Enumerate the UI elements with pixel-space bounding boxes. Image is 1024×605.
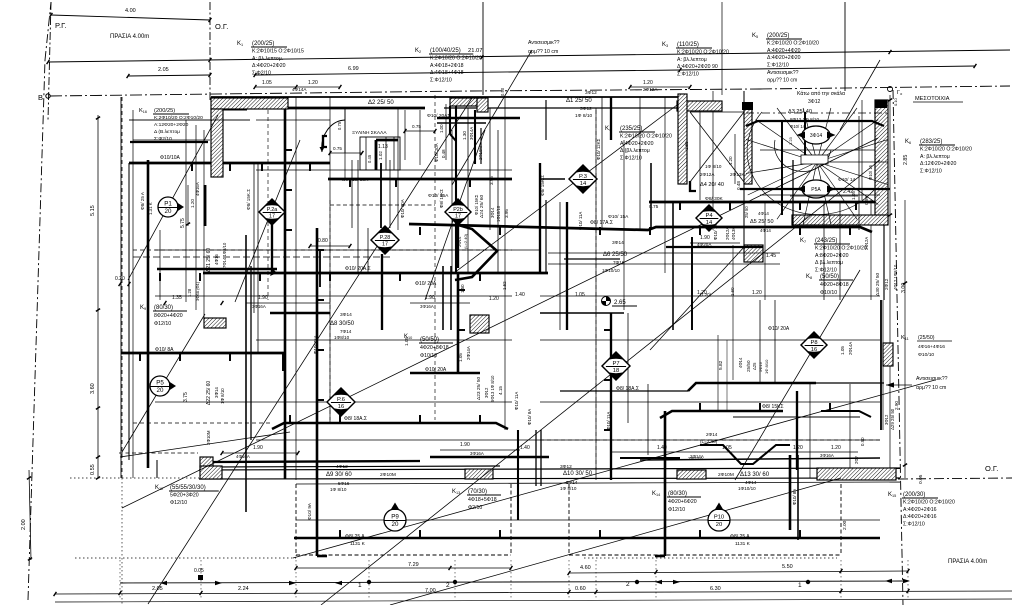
svg-text:Φ10/ 14: Φ10/ 14 xyxy=(838,177,855,183)
svg-text:Δ3 25/ 40: Δ3 25/ 40 xyxy=(788,109,812,115)
svg-text:1: 1 xyxy=(798,582,802,589)
svg-text:0.90: 0.90 xyxy=(860,437,865,446)
svg-text:(283/25): (283/25) xyxy=(920,139,942,145)
svg-text:5.75: 5.75 xyxy=(180,218,186,228)
svg-text:Φ8/ 17Α.Σ: Φ8/ 17Α.Σ xyxy=(590,220,613,226)
svg-text:Δ8 30/50: Δ8 30/50 xyxy=(330,321,355,327)
svg-text:Δ (Β.λεπτομ: Δ (Β.λεπτομ xyxy=(154,129,180,135)
svg-text:Σ:Φ12/10: Σ:Φ12/10 xyxy=(430,78,452,84)
svg-text:Α:8Φ20+2Φ20: Α:8Φ20+2Φ20 xyxy=(815,253,849,259)
svg-text:P8: P8 xyxy=(810,340,817,346)
svg-text:Δ:4Φ20+2Φ16: Δ:4Φ20+2Φ16 xyxy=(903,514,937,520)
svg-text:Φ10/ 75Α: Φ10/ 75Α xyxy=(313,335,318,354)
svg-text:3Φ6Α (Θ1): 3Φ6Α (Θ1) xyxy=(195,281,200,301)
svg-text:Δ (βλ.λεπτομ: Δ (βλ.λεπτομ xyxy=(620,148,650,154)
svg-text:Φ10/10: Φ10/10 xyxy=(820,290,837,296)
svg-text:4Φ18+5Φ18: 4Φ18+5Φ18 xyxy=(468,497,497,503)
svg-text:1.45: 1.45 xyxy=(766,253,776,259)
svg-text:(L=2.40): (L=2.40) xyxy=(463,233,468,249)
svg-text:Φ10/ 20Α: Φ10/ 20Α xyxy=(400,199,405,218)
svg-text:5Φ16: 5Φ16 xyxy=(338,481,350,486)
svg-text:2Φ12Α: 2Φ12Α xyxy=(700,172,715,177)
svg-text:P.6: P.6 xyxy=(337,397,345,403)
svg-text:(200/30): (200/30) xyxy=(903,492,925,498)
svg-text:3Φ14Α: 3Φ14Α xyxy=(469,127,474,140)
svg-text:Φ8/ 25 Α: Φ8/ 25 Α xyxy=(730,534,750,540)
svg-text:2Φ14Α: 2Φ14Α xyxy=(690,454,704,459)
svg-text:3Φ16Α: 3Φ16Α xyxy=(420,304,434,309)
svg-text:(1.20): (1.20) xyxy=(700,292,712,297)
svg-text:Φ12/10: Φ12/10 xyxy=(170,500,187,506)
svg-text:Φ10/ 15Α: Φ10/ 15Α xyxy=(608,214,629,220)
svg-text:0.99: 0.99 xyxy=(864,196,869,205)
svg-text:Φ8/ 25 Α: Φ8/ 25 Α xyxy=(345,534,365,540)
svg-text:Φ10/ 20Α: Φ10/ 20Α xyxy=(434,143,439,162)
svg-text:P10: P10 xyxy=(714,515,724,521)
svg-text:1.02: 1.02 xyxy=(378,151,383,160)
svg-text:1.05: 1.05 xyxy=(575,292,585,298)
svg-text:Σ:Φ2/10: Σ:Φ2/10 xyxy=(154,136,172,142)
svg-text:1.20: 1.20 xyxy=(831,445,841,451)
svg-text:1.00: 1.00 xyxy=(439,124,444,133)
svg-text:Δ29 25/ 50: Δ29 25/ 50 xyxy=(890,408,895,430)
svg-text:1.20: 1.20 xyxy=(643,80,653,86)
svg-text:Κάτω από την σκάλα: Κάτω από την σκάλα xyxy=(797,90,845,97)
svg-text:7Φ14: 7Φ14 xyxy=(340,329,352,334)
svg-text:2Φ12Α: 2Φ12Α xyxy=(725,227,730,240)
svg-text:1.05: 1.05 xyxy=(840,346,845,355)
svg-text:ΞΥΛΙΝΗ ΣΚΑΛΑ: ΞΥΛΙΝΗ ΣΚΑΛΑ xyxy=(352,130,387,136)
svg-text:0.10: 0.10 xyxy=(893,97,898,106)
svg-text:1.23: 1.23 xyxy=(788,136,793,145)
svg-text:1.05: 1.05 xyxy=(458,353,463,362)
svg-text:1.31 Κ: 1.31 Κ xyxy=(148,202,153,215)
svg-text:Α:4Φ20+2Φ16: Α:4Φ20+2Φ16 xyxy=(903,507,937,513)
svg-text:Α:4Φ20+4Φ20: Α:4Φ20+4Φ20 xyxy=(767,48,801,54)
svg-text:(100/40/25): (100/40/25) xyxy=(430,48,461,54)
svg-text:21.07: 21.07 xyxy=(468,48,483,54)
svg-text:25/50: 25/50 xyxy=(746,360,751,372)
svg-text:Φ10/ 8Α: Φ10/ 8Α xyxy=(792,489,797,505)
svg-text:2Φ?: 2Φ? xyxy=(854,455,859,464)
svg-text:3Φ14: 3Φ14 xyxy=(612,240,624,246)
svg-text:1.13: 1.13 xyxy=(378,144,388,150)
svg-text:1.40: 1.40 xyxy=(520,445,530,451)
svg-text:1Φ 8/10: 1Φ 8/10 xyxy=(764,359,769,374)
svg-text:4Φ14: 4Φ14 xyxy=(745,480,757,485)
svg-text:3.95: 3.95 xyxy=(489,176,494,185)
svg-text:1Φ 8/10: 1Φ 8/10 xyxy=(220,388,225,404)
svg-text:Α: βλ.λεπτομ: Α: βλ.λεπτομ xyxy=(677,57,707,63)
svg-text:3Φ16Α: 3Φ16Α xyxy=(470,451,484,456)
svg-text:0.48: 0.48 xyxy=(736,181,741,190)
svg-text:1131 Κ: 1131 Κ xyxy=(350,541,366,547)
svg-text:Δ4 20/ 40: Δ4 20/ 40 xyxy=(700,182,724,188)
svg-text:0.60: 0.60 xyxy=(575,586,586,592)
svg-text:0.75: 0.75 xyxy=(649,204,659,210)
svg-text:1.40: 1.40 xyxy=(657,445,667,451)
svg-text:Σ:Φ12/10: Σ:Φ12/10 xyxy=(815,268,837,274)
svg-text:Σ:Φ12/10: Σ:Φ12/10 xyxy=(677,72,699,78)
svg-text:2.00: 2.00 xyxy=(21,519,27,530)
svg-text:1131 Κ: 1131 Κ xyxy=(735,541,751,547)
svg-text:1Φ 8/10: 1Φ 8/10 xyxy=(330,487,347,492)
svg-text:ΜΕΣΟΤΟΙΧΙΑ: ΜΕΣΟΤΟΙΧΙΑ xyxy=(915,96,950,102)
svg-text:3.75: 3.75 xyxy=(183,392,189,402)
svg-text:(200/25): (200/25) xyxy=(767,33,789,39)
svg-text:5Φ20+3Φ20: 5Φ20+3Φ20 xyxy=(170,492,199,498)
svg-text:P2b: P2b xyxy=(453,207,463,213)
svg-text:1.40: 1.40 xyxy=(515,292,525,298)
svg-text:(110/25): (110/25) xyxy=(677,42,699,48)
svg-text:1.80: 1.80 xyxy=(684,141,689,150)
svg-text:3Φ14: 3Φ14 xyxy=(340,312,352,318)
svg-text:1.20: 1.20 xyxy=(752,290,762,296)
svg-text:Δ2 25/ 50: Δ2 25/ 50 xyxy=(368,100,394,106)
svg-text:Δ:4Φ20+2Φ20: Δ:4Φ20+2Φ20 xyxy=(767,55,801,61)
svg-text:Κ:2Φ10/20 Ο:2Φ10/20: Κ:2Φ10/20 Ο:2Φ10/20 xyxy=(903,499,955,505)
svg-text:5Φ13 1Φ 8/10: 5Φ13 1Φ 8/10 xyxy=(490,375,495,402)
svg-text:Φ8/ 25 Α: Φ8/ 25 Α xyxy=(140,191,145,210)
svg-text:P.2a: P.2a xyxy=(267,207,277,213)
svg-text:8Φ20+4Φ20: 8Φ20+4Φ20 xyxy=(154,313,183,319)
svg-text:Δ1 25/ 50: Δ1 25/ 50 xyxy=(566,98,592,104)
svg-text:2.00: 2.00 xyxy=(842,520,848,530)
svg-text:(25/50): (25/50) xyxy=(918,335,935,341)
svg-text:3Φ16Α: 3Φ16Α xyxy=(820,453,834,458)
svg-text:14: 14 xyxy=(706,220,713,226)
svg-text:Φ8/ 30Κ: Φ8/ 30Κ xyxy=(705,196,723,202)
svg-text:Φ10/ 11Α: Φ10/ 11Α xyxy=(514,392,519,410)
svg-text:0.80: 0.80 xyxy=(318,238,328,244)
svg-text:3Φ12: 3Φ12 xyxy=(884,414,889,425)
svg-text:16: 16 xyxy=(338,404,344,410)
svg-text:25/ 50: 25/ 50 xyxy=(744,206,749,218)
svg-text:Φ8/ 18ΚΣ: Φ8/ 18ΚΣ xyxy=(439,189,444,208)
svg-text:2Φ14Α: 2Φ14Α xyxy=(848,342,853,355)
svg-text:Δ5 25/ 50: Δ5 25/ 50 xyxy=(750,219,774,225)
svg-text:1.20: 1.20 xyxy=(489,296,499,302)
svg-text:2Φ12Α: 2Φ12Α xyxy=(643,87,658,92)
svg-text:1.28: 1.28 xyxy=(187,288,192,297)
svg-text:2.85: 2.85 xyxy=(903,155,909,165)
svg-text:Φ10/ 12: Φ10/ 12 xyxy=(713,224,718,240)
svg-text:Σ:Φ2/10: Σ:Φ2/10 xyxy=(252,71,271,77)
svg-text:3Φ14: 3Φ14 xyxy=(490,207,495,218)
svg-text:1Φ8/10: 1Φ8/10 xyxy=(334,335,350,340)
svg-text:4Φ12: 4Φ12 xyxy=(336,464,348,470)
svg-text:Α: βλ.λεπτομ.: Α: βλ.λεπτομ. xyxy=(252,56,283,62)
svg-text:4Φ20+8Φ18: 4Φ20+8Φ18 xyxy=(820,282,849,288)
svg-text:(200/25): (200/25) xyxy=(252,41,274,47)
svg-text:Ο.Γ.: Ο.Γ. xyxy=(985,464,998,473)
svg-text:0.75: 0.75 xyxy=(337,121,342,130)
svg-text:Φ10/ 20Α: Φ10/ 20Α xyxy=(425,367,447,373)
svg-text:Φ10/ 15: Φ10/ 15 xyxy=(868,164,873,180)
svg-text:Φ12/10: Φ12/10 xyxy=(154,321,171,327)
svg-text:Κ:2Φ10/20 Ο:2Φ10/20: Κ:2Φ10/20 Ο:2Φ10/20 xyxy=(154,115,203,121)
svg-text:P7: P7 xyxy=(612,361,619,367)
svg-text:6.99: 6.99 xyxy=(348,66,359,72)
svg-text:0.05: 0.05 xyxy=(194,568,204,574)
svg-text:(L=2.40): (L=2.40) xyxy=(700,439,718,444)
svg-text:P.3: P.3 xyxy=(579,174,587,180)
svg-text:Δ βλ.λεπτομ: Δ βλ.λεπτομ xyxy=(815,260,843,266)
svg-text:Δ23 25/ 50: Δ23 25/ 50 xyxy=(476,376,482,400)
svg-text:(55/55/30/30): (55/55/30/30) xyxy=(170,485,206,491)
svg-text:3Φ12: 3Φ12 xyxy=(808,99,821,105)
svg-text:Φ8/ 18Α.Σ: Φ8/ 18Α.Σ xyxy=(344,416,367,422)
svg-text:Δ:4Φ20+2Φ20: Δ:4Φ20+2Φ20 xyxy=(252,63,286,69)
svg-text:1Φ10/10: 1Φ10/10 xyxy=(602,268,620,273)
svg-text:1.20: 1.20 xyxy=(728,156,733,165)
svg-text:0.48: 0.48 xyxy=(441,149,446,158)
svg-text:1: 1 xyxy=(358,582,362,589)
svg-text:P.28: P.28 xyxy=(380,235,390,241)
svg-text:20: 20 xyxy=(716,522,722,528)
svg-text:4Φ12 1Φ8/10: 4Φ12 1Φ8/10 xyxy=(893,264,898,290)
svg-text:0.75: 0.75 xyxy=(333,146,342,151)
svg-text:2Φ10Μ: 2Φ10Μ xyxy=(380,472,396,478)
svg-text:20: 20 xyxy=(157,387,164,394)
svg-text:Φ10/ 11Α: Φ10/ 11Α xyxy=(606,412,611,430)
svg-text:8Φ12 1Φ 8/10: 8Φ12 1Φ 8/10 xyxy=(790,117,819,122)
svg-text:Α:4Φ20+2Φ20: Α:4Φ20+2Φ20 xyxy=(620,141,654,147)
svg-text:3Φ12: 3Φ12 xyxy=(580,106,592,112)
svg-text:(80/30): (80/30) xyxy=(154,305,173,311)
svg-text:4.00: 4.00 xyxy=(125,8,136,14)
svg-text:Φ8/ 15ΚΣ: Φ8/ 15ΚΣ xyxy=(762,404,784,410)
svg-text:5.15: 5.15 xyxy=(90,205,96,216)
svg-text:3.60: 3.60 xyxy=(90,383,96,394)
svg-text:Α:12Φ20+2Φ20: Α:12Φ20+2Φ20 xyxy=(154,122,189,128)
svg-text:Δ22 25/ 60: Δ22 25/ 60 xyxy=(206,381,212,405)
svg-text:1Φ10/10: 1Φ10/10 xyxy=(496,205,501,222)
svg-text:4Φ20+6Φ20: 4Φ20+6Φ20 xyxy=(668,499,697,505)
svg-text:Φ12/10: Φ12/10 xyxy=(668,507,685,513)
svg-text:Αντισεισμικ??: Αντισεισμικ?? xyxy=(528,40,560,46)
svg-text:4.60: 4.60 xyxy=(580,565,591,571)
svg-text:4Φ16Α: 4Φ16Α xyxy=(195,182,200,196)
svg-text:4Φ16: 4Φ16 xyxy=(214,254,219,265)
svg-text:0.55: 0.55 xyxy=(90,464,96,475)
svg-text:Φ8/ 15Κ.Σ: Φ8/ 15Κ.Σ xyxy=(246,189,251,210)
svg-text:Κ:2Φ10/20 Ο:2Φ10/20: Κ:2Φ10/20 Ο:2Φ10/20 xyxy=(620,133,672,139)
svg-text:4Φ14: 4Φ14 xyxy=(760,228,771,233)
svg-text:4Φ14Α: 4Φ14Α xyxy=(292,87,307,92)
svg-text:(200/25): (200/25) xyxy=(154,108,175,114)
svg-text:4Φ16Α: 4Φ16Α xyxy=(236,454,250,459)
svg-text:ΠΡΑΣΙΑ 4.00m: ΠΡΑΣΙΑ 4.00m xyxy=(948,559,987,565)
svg-text:Φ10/10: Φ10/10 xyxy=(420,353,437,359)
svg-text:Ρ.Γ.: Ρ.Γ. xyxy=(55,21,67,30)
svg-text:Φ10/ 14: Φ10/ 14 xyxy=(790,124,806,129)
svg-text:Δ25: Δ25 xyxy=(752,362,757,370)
svg-text:2: 2 xyxy=(626,581,630,588)
svg-text:2.65: 2.65 xyxy=(614,300,626,306)
svg-text:1Φ10/10: 1Φ10/10 xyxy=(738,486,756,491)
svg-text:(50/50): (50/50) xyxy=(420,337,439,343)
svg-text:Φ10/ 20Α: Φ10/ 20Α xyxy=(768,326,790,332)
svg-text:P4: P4 xyxy=(705,213,713,219)
svg-text:1.05: 1.05 xyxy=(404,337,409,346)
svg-text:4Φ14: 4Φ14 xyxy=(758,211,769,216)
svg-text:1.50: 1.50 xyxy=(460,284,465,293)
svg-text:1.90: 1.90 xyxy=(253,445,263,451)
svg-text:Φ10/ 11Α: Φ10/ 11Α xyxy=(578,212,583,230)
svg-text:14: 14 xyxy=(580,181,587,187)
svg-text:2Φ14: 2Φ14 xyxy=(706,432,718,437)
svg-text:κλ.Φ10/ 20Κ: κλ.Φ10/ 20Κ xyxy=(342,177,369,183)
svg-text:3Φ16Α: 3Φ16Α xyxy=(252,304,266,309)
svg-text:2.05: 2.05 xyxy=(158,67,169,73)
svg-text:5.50: 5.50 xyxy=(782,564,793,570)
svg-text:4.15: 4.15 xyxy=(498,386,503,395)
svg-text:(80/30): (80/30) xyxy=(668,491,687,497)
svg-text:2.90: 2.90 xyxy=(894,401,899,410)
svg-text:18: 18 xyxy=(613,368,619,374)
svg-text:(243/25): (243/25) xyxy=(815,238,837,244)
svg-text:1.30: 1.30 xyxy=(462,131,467,140)
svg-text:4Φ13Κ: 4Φ13Κ xyxy=(731,227,736,240)
svg-text:0.20: 0.20 xyxy=(115,276,125,282)
svg-text:17: 17 xyxy=(382,241,388,247)
svg-text:20: 20 xyxy=(165,208,172,215)
svg-text:Κ:2Φ10/15 Ο:2Φ10/15: Κ:2Φ10/15 Ο:2Φ10/15 xyxy=(252,48,304,54)
svg-text:Αντισεισμικ??: Αντισεισμικ?? xyxy=(767,70,799,76)
svg-text:3.00: 3.00 xyxy=(901,283,907,293)
svg-text:Φ8/ 18Α.Σ: Φ8/ 18Α.Σ xyxy=(616,386,639,392)
svg-text:Δ13 30/ 60: Δ13 30/ 60 xyxy=(740,472,770,478)
svg-text:Φ10/10Α: Φ10/10Α xyxy=(160,155,181,161)
svg-text:4Φ20+8Φ18: 4Φ20+8Φ18 xyxy=(420,345,449,351)
svg-text:3Φ14: 3Φ14 xyxy=(214,387,219,398)
svg-text:P5: P5 xyxy=(156,380,164,387)
svg-text:Κ:2Φ10/20 Ο:2Φ10/20: Κ:2Φ10/20 Ο:2Φ10/20 xyxy=(920,146,972,152)
svg-text:Α: βλ.λεπτομ: Α: βλ.λεπτομ xyxy=(920,154,950,160)
svg-text:3Φ12: 3Φ12 xyxy=(560,464,572,470)
svg-text:3.95: 3.95 xyxy=(504,209,509,218)
svg-text:Δ:12Φ20+2Φ20: Δ:12Φ20+2Φ20 xyxy=(920,161,957,167)
svg-text:P1: P1 xyxy=(164,201,172,208)
svg-text:Φ10/ 12ΚΣ: Φ10/ 12ΚΣ xyxy=(596,138,601,160)
svg-text:5Φ14: 5Φ14 xyxy=(566,480,578,485)
svg-text:20: 20 xyxy=(392,521,399,528)
svg-text:1.35: 1.35 xyxy=(172,295,182,301)
svg-text:2Φ10Μ: 2Φ10Μ xyxy=(478,146,483,160)
svg-text:1.52: 1.52 xyxy=(502,281,507,290)
svg-text:2Φ12Α: 2Φ12Α xyxy=(864,237,869,250)
svg-text:2Φ10Μ: 2Φ10Μ xyxy=(206,430,211,445)
svg-text:Σ:Φ12/10: Σ:Φ12/10 xyxy=(920,169,942,175)
svg-text:0.90: 0.90 xyxy=(500,87,505,96)
svg-text:4Φ14: 4Φ14 xyxy=(738,357,743,368)
svg-text:3Φ12: 3Φ12 xyxy=(585,90,597,96)
svg-text:(70/30): (70/30) xyxy=(468,489,487,495)
svg-text:Φ2/10: Φ2/10 xyxy=(468,505,482,511)
svg-text:αρμ?? 10 cm: αρμ?? 10 cm xyxy=(528,49,558,55)
svg-text:1Φ 8/10: 1Φ 8/10 xyxy=(575,113,592,119)
svg-text:7Φ14 1Φ8/10: 7Φ14 1Φ8/10 xyxy=(222,242,227,268)
svg-text:7.29: 7.29 xyxy=(408,562,419,568)
svg-text:Σ:Φ12/10: Σ:Φ12/10 xyxy=(767,63,789,69)
svg-text:Δ9 30/ 60: Δ9 30/ 60 xyxy=(326,472,352,478)
svg-text:Φ10/ 9Α: Φ10/ 9Α xyxy=(307,502,312,520)
svg-text:αρμ?? 10 cm: αρμ?? 10 cm xyxy=(767,77,797,83)
svg-text:2Φ14Α: 2Φ14Α xyxy=(466,346,471,360)
svg-text:2.24: 2.24 xyxy=(238,586,249,592)
svg-text:(50/50): (50/50) xyxy=(820,274,839,280)
svg-text:Φ10/ 20Α: Φ10/ 20Α xyxy=(415,281,437,287)
svg-text:Φ10/ 15ΚΣ: Φ10/ 15ΚΣ xyxy=(474,194,479,215)
svg-text:1.90: 1.90 xyxy=(460,442,470,448)
svg-text:1.20: 1.20 xyxy=(308,80,318,86)
svg-text:P9: P9 xyxy=(391,514,399,521)
svg-text:Ο.Γ.: Ο.Γ. xyxy=(215,22,228,31)
svg-text:1.20: 1.20 xyxy=(793,445,803,451)
svg-text:Δ21 25/ 60: Δ21 25/ 60 xyxy=(206,248,212,272)
svg-text:Κ:2Φ10/20 Ο:2Φ10/20: Κ:2Φ10/20 Ο:2Φ10/20 xyxy=(815,245,867,251)
svg-text:2Φ10Μ: 2Φ10Μ xyxy=(718,472,734,478)
svg-text:B: B xyxy=(38,93,43,102)
svg-text:0.45: 0.45 xyxy=(367,154,372,163)
svg-text:Φ10/ 20ΑΣ: Φ10/ 20ΑΣ xyxy=(427,113,450,119)
svg-text:6.30: 6.30 xyxy=(710,586,721,592)
svg-text:ΠΡΑΣΙΑ 4.00m: ΠΡΑΣΙΑ 4.00m xyxy=(110,34,149,40)
svg-text:Δ30 25/ 50: Δ30 25/ 50 xyxy=(875,272,881,296)
svg-text:2Φ13Κ: 2Φ13Κ xyxy=(730,172,745,177)
svg-text:16: 16 xyxy=(811,347,817,353)
svg-text:1.60: 1.60 xyxy=(730,287,735,296)
svg-text:Α:4Φ18+2Φ18: Α:4Φ18+2Φ18 xyxy=(430,63,464,69)
svg-text:3Φ14: 3Φ14 xyxy=(810,133,823,139)
svg-text:Δ:4Φ18+4Φ18: Δ:4Φ18+4Φ18 xyxy=(430,70,464,76)
svg-text:2Φ12: 2Φ12 xyxy=(884,278,889,290)
svg-text:4Φ16+4Φ16: 4Φ16+4Φ16 xyxy=(918,344,945,350)
svg-text:5.82: 5.82 xyxy=(718,360,724,370)
svg-text:Σ:Φ12/10: Σ:Φ12/10 xyxy=(903,522,925,528)
svg-text:1Φ 8/10: 1Φ 8/10 xyxy=(705,164,722,169)
svg-text:αρμ?? 10 cm: αρμ?? 10 cm xyxy=(916,385,946,391)
svg-text:1.05: 1.05 xyxy=(262,80,272,86)
svg-text:(235/25): (235/25) xyxy=(620,126,642,132)
svg-text:Δ:4Φ20+2Φ20 90: Δ:4Φ20+2Φ20 90 xyxy=(677,64,718,70)
svg-text:17: 17 xyxy=(455,213,461,219)
svg-text:1Φ 8/10: 1Φ 8/10 xyxy=(560,486,577,491)
svg-text:1.20: 1.20 xyxy=(190,199,195,208)
svg-text:Φ10/10: Φ10/10 xyxy=(918,352,934,358)
svg-text:Φ10/ 8Α: Φ10/ 8Α xyxy=(155,347,174,353)
svg-text:0.05: 0.05 xyxy=(918,474,924,484)
svg-text:Φ10/ 20Α.Σ: Φ10/ 20Α.Σ xyxy=(345,266,371,272)
svg-text:P5Α: P5Α xyxy=(811,187,821,193)
svg-text:Κ:2Φ10/20 Ο:2Φ10/20: Κ:2Φ10/20 Ο:2Φ10/20 xyxy=(677,49,729,55)
svg-text:1.90: 1.90 xyxy=(700,235,710,241)
svg-text:17: 17 xyxy=(269,213,275,219)
svg-text:Φ8/ 15Κ.Σ: Φ8/ 15Κ.Σ xyxy=(540,175,545,196)
svg-text:Δ24 25/ 60: Δ24 25/ 60 xyxy=(479,194,485,218)
svg-text:Σ:Φ12/10: Σ:Φ12/10 xyxy=(620,156,642,162)
svg-text:Κ:2Φ10/20 Ο:2Φ10/20: Κ:2Φ10/20 Ο:2Φ10/20 xyxy=(767,40,819,46)
svg-text:1.90: 1.90 xyxy=(258,295,268,301)
svg-text:Κ:2Φ10/20 Ο:2Φ10/20: Κ:2Φ10/20 Ο:2Φ10/20 xyxy=(430,55,482,61)
svg-text:Δ10 30/ 50: Δ10 30/ 50 xyxy=(563,471,593,477)
svg-text:Φ10/ 8Α: Φ10/ 8Α xyxy=(527,409,532,425)
svg-text:5Φ16: 5Φ16 xyxy=(758,361,763,372)
svg-text:3Φ12: 3Φ12 xyxy=(484,387,489,398)
svg-text:1.90: 1.90 xyxy=(425,295,435,301)
